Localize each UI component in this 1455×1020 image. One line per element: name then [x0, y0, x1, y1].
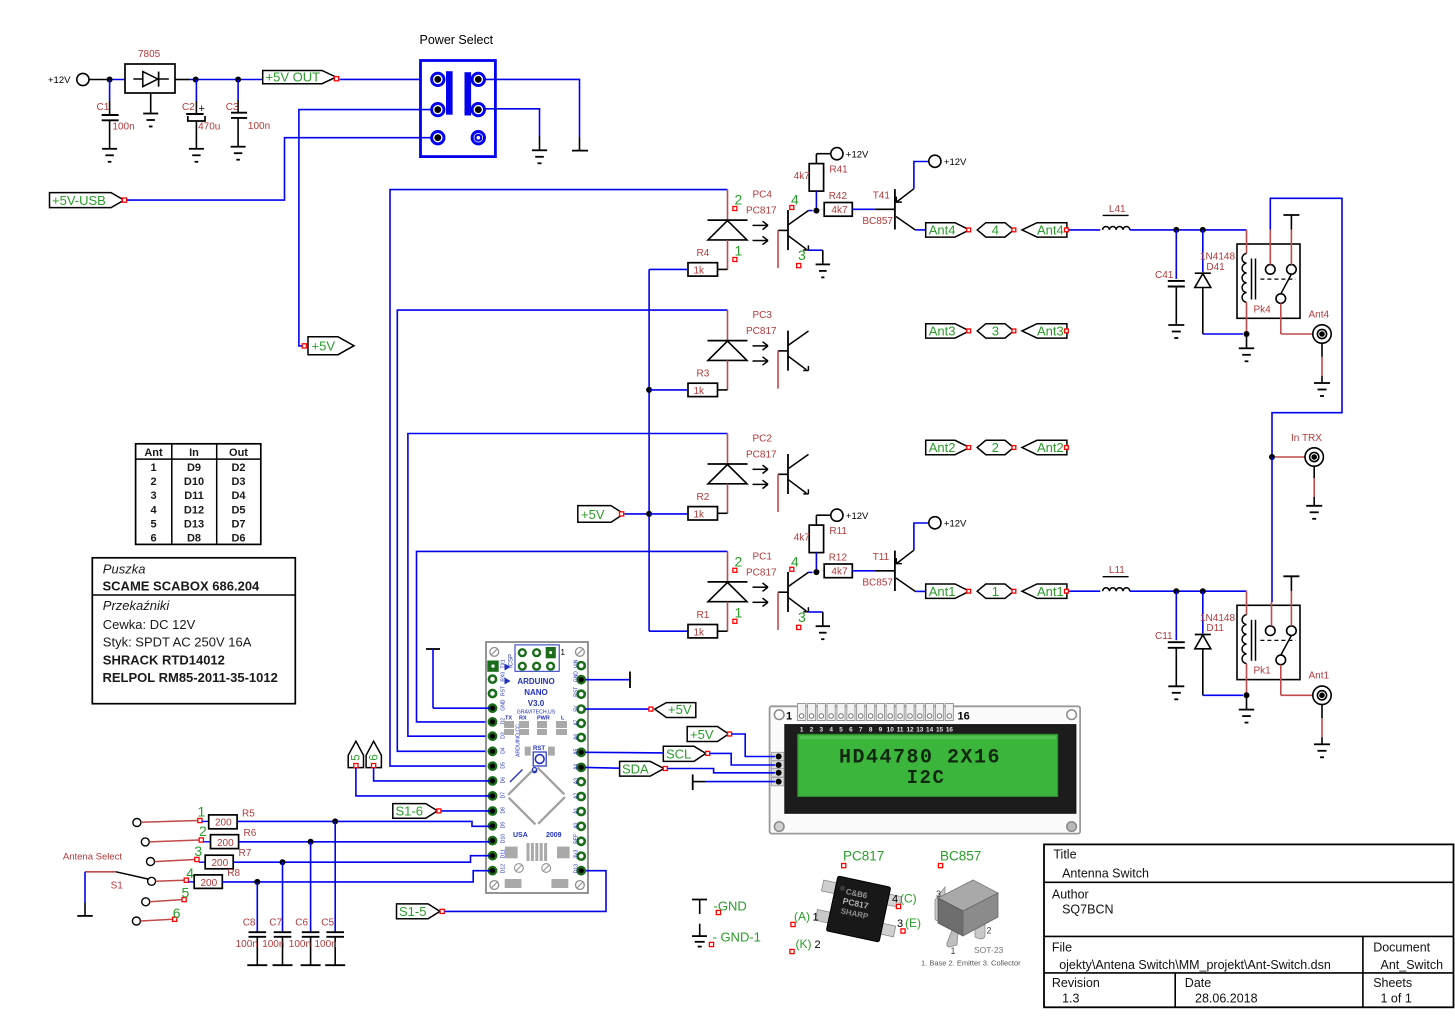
opto PC1 light arrows [753, 583, 769, 607]
svg-text:1 of 1: 1 of 1 [1381, 992, 1412, 1006]
svg-text:5: 5 [839, 727, 843, 734]
svg-text:2: 2 [815, 939, 821, 951]
ground coil Pk1 [1239, 695, 1254, 722]
ground coil Pk4 [1239, 334, 1254, 361]
svg-text:Antena Select: Antena Select [63, 851, 123, 862]
svg-text:Sheets: Sheets [1373, 976, 1412, 990]
svg-text:BC857: BC857 [940, 849, 981, 864]
wire S1-6 to D8 [442, 810, 491, 812]
resistor R7 200 [199, 848, 252, 869]
svg-text:100n: 100n [315, 939, 337, 950]
ground C6 [301, 964, 321, 966]
pin C4 PC817 [892, 892, 917, 909]
wires S1 contacts [141, 821, 200, 922]
ground C41 [1168, 324, 1184, 326]
regulator 7805 [125, 49, 175, 93]
svg-text:3: 3 [194, 843, 202, 859]
flag Ant3 source [926, 324, 970, 338]
wire D41 to coil return [1203, 333, 1243, 335]
svg-text:1: 1 [561, 648, 566, 657]
flag +5V OUT [263, 70, 339, 85]
svg-text:USA: USA [513, 832, 528, 839]
wire 7805 output [175, 79, 263, 81]
wire R6 to D10 [239, 841, 490, 843]
mcu chip Arduino [508, 768, 565, 825]
capacitor C8 100n [236, 882, 267, 965]
wire Pk4 A to TRX bus [1270, 198, 1342, 457]
svg-text:2: 2 [199, 823, 207, 839]
LCD bezel [785, 725, 1076, 814]
wire contact C to Ant4 socket [1281, 303, 1313, 334]
svg-text:D8: D8 [187, 533, 201, 545]
svg-text:(C): (C) [900, 892, 917, 906]
pin labels Arduino [501, 659, 580, 873]
svg-text:15: 15 [936, 727, 944, 734]
svg-text:ojekty\Antena Switch\MM_projek: ojekty\Antena Switch\MM_projekt\Ant-Swit… [1059, 958, 1331, 972]
socket Ant4 [1309, 309, 1332, 343]
svg-text:Antenna Switch: Antenna Switch [1062, 867, 1149, 881]
svg-text:Ant4: Ant4 [1037, 223, 1064, 238]
wire SDA to LCD pin3 [667, 769, 775, 773]
svg-text:R11: R11 [829, 526, 847, 537]
svg-text:BC857: BC857 [862, 577, 893, 588]
opto PC3 light arrows [753, 342, 769, 366]
svg-text:S1-5: S1-5 [399, 904, 426, 919]
ground earth mid [532, 149, 547, 151]
wire R8 to D12 [222, 871, 490, 882]
ground C5 [325, 964, 345, 966]
wire R12 to base [852, 570, 895, 572]
pin labels BC857 [921, 889, 1021, 968]
svg-text:PWR: PWR [537, 716, 550, 722]
wire +5V to LCD pin1 [732, 734, 775, 757]
svg-text:6: 6 [150, 533, 156, 545]
package PC817 photo [814, 873, 904, 944]
svg-text:Title: Title [1053, 848, 1076, 862]
wire T11 collector out [915, 590, 926, 592]
svg-text:3: 3 [798, 609, 806, 625]
svg-text:100n: 100n [236, 939, 258, 950]
svg-text:D7: D7 [501, 792, 507, 799]
flag +5V-USB [50, 193, 127, 209]
svg-text:- GND-1: - GND-1 [713, 930, 761, 945]
flag SDA [620, 761, 668, 776]
wire D-out to PC4 pin2 [727, 190, 729, 221]
resistor R6 200 [203, 828, 256, 849]
svg-text:T11: T11 [873, 552, 890, 563]
ground C2 [189, 148, 204, 150]
svg-text:Ant4: Ant4 [929, 223, 956, 238]
wire A4 to SDA [585, 766, 620, 769]
label PC3 [746, 310, 777, 337]
svg-text:1: 1 [992, 584, 999, 599]
svg-text:1: 1 [735, 604, 743, 620]
svg-text:Ant1: Ant1 [929, 584, 956, 599]
svg-text:Date: Date [1185, 976, 1211, 990]
svg-text:Puszka: Puszka [103, 562, 146, 577]
svg-text:Ant2: Ant2 [929, 440, 956, 455]
pads Arduino left column [489, 676, 496, 875]
ground flag GND left [426, 649, 490, 708]
svg-text:2: 2 [150, 476, 156, 488]
ICSP header [508, 645, 565, 671]
LCD screen [798, 734, 1058, 796]
pin Ant3 a [967, 329, 971, 333]
relay Pk1 contact A [1266, 626, 1276, 636]
ground PC4 emitter [816, 263, 830, 265]
node C2 tap [193, 77, 199, 83]
svg-text:7: 7 [859, 727, 863, 734]
svg-text:PC817: PC817 [746, 206, 777, 217]
resistor R8 200 [188, 868, 240, 889]
pin 3 PC4 [797, 247, 806, 268]
svg-text:Out: Out [229, 447, 248, 459]
svg-text:R41: R41 [829, 165, 848, 176]
svg-text:ARDUINO.CC: ARDUINO.CC [516, 724, 522, 757]
svg-text:1k: 1k [694, 510, 706, 521]
flag Ant4 source [926, 223, 970, 237]
flag Ant2 dest [1022, 440, 1067, 454]
ground C3 [231, 146, 246, 148]
svg-text:3V3: 3V3 [574, 849, 580, 858]
wire Ant4 to L [1069, 229, 1100, 231]
svg-text:200: 200 [215, 817, 232, 828]
svg-text:Przekaźniki: Przekaźniki [103, 598, 171, 613]
node R6 cap [308, 839, 314, 845]
svg-text:D10: D10 [501, 834, 507, 843]
svg-text:12: 12 [906, 727, 914, 734]
pin 1 PC1 [733, 604, 743, 623]
flag Ant1 dest [1022, 584, 1067, 598]
label PC1 [746, 551, 777, 578]
module LCD board [770, 706, 1081, 833]
svg-text:V3.0: V3.0 [528, 699, 545, 708]
no-connect bar Pk1 [1283, 575, 1299, 577]
silkscreen Arduino texts [505, 664, 566, 840]
opto PC2 light arrows [753, 465, 769, 489]
svg-text:4: 4 [829, 727, 833, 734]
svg-text:VIN: VIN [574, 659, 580, 668]
svg-text:+5V-USB: +5V-USB [52, 193, 106, 208]
svg-text:In TRX: In TRX [1291, 433, 1322, 444]
pin Ant2 b [1012, 446, 1016, 450]
opto-coupler PC1 PC817 LED [708, 582, 748, 631]
ground C7 [273, 964, 293, 966]
wire S1-5 to D13 [445, 871, 607, 912]
svg-text:C8: C8 [243, 917, 256, 928]
svg-text:6: 6 [368, 754, 380, 760]
svg-text:200: 200 [201, 878, 218, 889]
svg-text:RST: RST [533, 746, 545, 752]
wire bus to R2 [649, 513, 688, 515]
relay Pk1 mover [1281, 636, 1292, 656]
svg-text:D5: D5 [501, 762, 507, 769]
svg-text:PC4: PC4 [753, 190, 773, 201]
resistor R41 4k7 pullup [794, 154, 848, 211]
wire SCL to LCD pin2 [710, 753, 775, 765]
svg-text:SCL: SCL [666, 747, 691, 762]
relay Pk4 dashed link [1260, 278, 1295, 280]
svg-text:D4: D4 [231, 490, 246, 502]
relay Pk1 contact C [1276, 655, 1286, 665]
wire +5V-USB to Power Select [127, 138, 432, 200]
svg-text:D9: D9 [187, 462, 201, 474]
svg-text:In: In [189, 447, 199, 459]
net number 4 diamond [977, 223, 1014, 238]
relay Pk4 contact B lead [1290, 215, 1292, 265]
svg-text:D10: D10 [184, 476, 204, 488]
svg-text:R2: R2 [697, 492, 710, 503]
svg-text:R5: R5 [242, 809, 255, 820]
svg-text:RST: RST [501, 686, 507, 696]
svg-text:470u: 470u [198, 122, 220, 133]
svg-text:(A): (A) [794, 910, 810, 924]
resistor R11 4k7 pullup [794, 515, 848, 572]
svg-text:+5V: +5V [312, 339, 336, 354]
capacitor C41 [1155, 230, 1185, 325]
net number 3 diamond [977, 324, 1014, 339]
label PC4 [746, 190, 777, 217]
svg-text:100n: 100n [289, 939, 311, 950]
pin K2 PC817 [790, 937, 821, 954]
svg-text:R8: R8 [227, 868, 240, 879]
diode D11 1N4148 [1195, 591, 1236, 695]
svg-text:RST: RST [574, 687, 580, 697]
svg-text:REF: REF [574, 834, 580, 844]
node coil return Pk1 [1244, 692, 1250, 698]
svg-text:SDA: SDA [622, 762, 649, 777]
svg-text:+12V: +12V [846, 511, 869, 522]
node R8 cap [254, 879, 260, 885]
svg-text:Cewka: DC 12V: Cewka: DC 12V [103, 617, 196, 632]
svg-text:A3: A3 [574, 778, 580, 784]
pin 1 PC4 [733, 243, 743, 262]
svg-text:28.06.2018: 28.06.2018 [1195, 992, 1258, 1006]
wire to Power Select pin1 [340, 78, 432, 80]
relay Pk4 coil [1242, 230, 1255, 334]
svg-text:D9: D9 [501, 822, 507, 829]
node bus R2 [646, 511, 652, 517]
svg-text:R6: R6 [244, 828, 257, 839]
label PC817 pkg [842, 849, 885, 868]
svg-text:2: 2 [987, 926, 992, 936]
svg-text:Ant3: Ant3 [929, 324, 956, 339]
pin 3 PC1 [797, 609, 806, 630]
wire L41 to relay coil [1130, 229, 1247, 231]
svg-text:PC1: PC1 [753, 551, 773, 562]
svg-text:D13: D13 [574, 864, 580, 873]
LCD left connector pads [772, 752, 784, 786]
svg-text:D6: D6 [501, 777, 507, 784]
pin numbers S1 [173, 804, 207, 921]
svg-text:A0: A0 [574, 822, 580, 828]
svg-text:D4: D4 [501, 747, 507, 754]
pin Ant4 a [967, 228, 971, 232]
relay Pk4 body [1237, 244, 1300, 318]
svg-text:Ant_Switch: Ant_Switch [1381, 958, 1444, 972]
svg-text:1k: 1k [694, 386, 706, 397]
svg-text:Pk4: Pk4 [1254, 304, 1272, 315]
flag 5 input [348, 741, 363, 768]
pins S1 squares [173, 818, 204, 921]
ground bar right of Arduino [629, 672, 631, 689]
wire Power Select to bar gnd [485, 79, 580, 150]
resistor R2 1k [688, 492, 728, 521]
net number 1 diamond [977, 584, 1014, 599]
relay Pk4 contact C [1276, 294, 1286, 304]
svg-text:SHRACK RTD14012: SHRACK RTD14012 [103, 652, 225, 667]
svg-text:Ant3: Ant3 [1037, 324, 1064, 339]
flag SCL [663, 746, 709, 761]
diode D41 1N4148 [1195, 230, 1236, 334]
svg-text:SOT-23: SOT-23 [974, 945, 1004, 955]
svg-text:D8: D8 [501, 807, 507, 814]
svg-text:3: 3 [992, 324, 999, 339]
wire L11 to relay coil [1130, 590, 1247, 592]
svg-text:3: 3 [798, 247, 806, 263]
socket In TRX [1275, 433, 1323, 466]
resistor R5 200 [202, 809, 255, 829]
wire Ant1 to L [1069, 590, 1100, 592]
svg-text:NANO: NANO [524, 688, 548, 697]
svg-text:D11: D11 [1206, 623, 1224, 634]
svg-text:9: 9 [879, 727, 883, 734]
label PC2 [746, 434, 777, 461]
svg-text:2: 2 [810, 727, 814, 734]
wire T41 emitter to +12V [914, 162, 928, 189]
svg-text:C7: C7 [269, 917, 282, 928]
pin 4 PC4 [790, 192, 799, 210]
svg-text:PC2: PC2 [753, 434, 773, 445]
opto PC1 phototransistor [778, 572, 809, 630]
smd parts Arduino [504, 721, 570, 888]
relay Pk4 contact B [1287, 265, 1297, 275]
ground bar LCD [693, 774, 706, 790]
ground C8 [247, 964, 267, 966]
wire R5 to D9 [237, 821, 490, 826]
svg-text:+12V: +12V [48, 75, 71, 86]
wire 5V pad to +5V flag [585, 708, 651, 710]
svg-text:+12V: +12V [846, 150, 869, 161]
svg-text:D13: D13 [184, 518, 204, 530]
svg-text:L11: L11 [1109, 565, 1125, 576]
pin E3 PC817 [897, 916, 921, 933]
relay Pk1 body [1237, 605, 1300, 679]
svg-text:5: 5 [351, 754, 363, 760]
svg-text:4k7: 4k7 [794, 533, 811, 544]
svg-text:3: 3 [936, 889, 941, 899]
transistor T11 BC857 PNP [862, 550, 915, 591]
svg-text:6: 6 [173, 905, 181, 921]
node C11 tap [1173, 588, 1179, 594]
pin 2 PC4 [733, 192, 743, 211]
wire A5 to SCL [585, 751, 663, 754]
wire D4 to PC3 [397, 310, 727, 751]
svg-text:200: 200 [212, 858, 229, 869]
pad TX1 square [488, 661, 498, 671]
node base junction [813, 569, 819, 575]
net number 2 diamond [977, 440, 1014, 455]
module Arduino Nano board [486, 642, 588, 893]
wire D-out to PC1 pin2 [727, 551, 729, 582]
svg-text:SQ7BCN: SQ7BCN [1062, 903, 1113, 917]
svg-text:S1: S1 [111, 881, 124, 892]
ground C1 [102, 148, 117, 150]
wire flag5 to D7 [356, 768, 490, 796]
wire GND right to bar [585, 679, 630, 681]
svg-text:Document: Document [1373, 941, 1430, 955]
svg-text:R1: R1 [697, 610, 710, 621]
svg-text:-GND: -GND [714, 899, 747, 914]
wire +5V bus vertical [648, 269, 650, 631]
svg-text:+: + [199, 103, 205, 115]
wire gnd to LCD pin4 [706, 781, 775, 783]
capacitor C7 100n [262, 862, 291, 965]
opto-coupler PC2 PC817 LED [708, 464, 748, 513]
ground bar right [572, 150, 588, 152]
resistor R3 1k [688, 369, 728, 398]
node R5 cap [332, 818, 338, 824]
node In TRX [1269, 454, 1275, 460]
flag +5V mid [302, 337, 354, 355]
svg-text:+12V: +12V [944, 519, 967, 530]
svg-text:5V: 5V [574, 705, 580, 712]
flag +5V LCD [687, 727, 731, 742]
svg-text:16: 16 [958, 711, 970, 723]
node coil return Pk4 [1244, 331, 1250, 337]
wire T11 emitter to +12V [914, 523, 928, 550]
wire flag6 to D6 [374, 768, 490, 781]
svg-text:A6: A6 [574, 734, 580, 740]
svg-text:+12V: +12V [944, 157, 967, 168]
pin Ant1 a [967, 589, 971, 593]
package BC857 photo [935, 880, 998, 947]
relay Pk1 dashed link [1260, 639, 1295, 641]
pin Ant3 c [1065, 329, 1069, 333]
title block [1044, 844, 1454, 1007]
node base junction [813, 208, 819, 214]
power +12V for R11 [831, 509, 869, 522]
flag +5V bus [578, 506, 624, 523]
svg-text:Revision: Revision [1052, 976, 1100, 990]
svg-text:+5V: +5V [668, 702, 692, 717]
svg-text:D5: D5 [231, 504, 245, 516]
svg-text:2: 2 [735, 192, 743, 208]
svg-text:BC857: BC857 [862, 216, 893, 227]
capacitor C5 100n [315, 821, 345, 965]
wire PC1 collector to junction [809, 571, 813, 573]
transistor T41 BC857 PNP [862, 189, 915, 230]
info box Puszka [92, 558, 295, 704]
svg-text:PC817: PC817 [746, 326, 777, 337]
resistor R4 1k [688, 248, 728, 277]
pin 2 PC1 [733, 553, 743, 572]
svg-text:R4: R4 [697, 248, 710, 259]
ground Ant1 socket [1314, 705, 1330, 758]
flag 6 input [366, 741, 381, 768]
svg-text:A5: A5 [574, 748, 580, 754]
flag Ant1 source [926, 584, 970, 598]
svg-text:C5: C5 [321, 917, 334, 928]
relay Pk4 mover [1281, 274, 1292, 294]
table Ant In Out [136, 444, 261, 545]
pin Ant2 a [967, 446, 971, 450]
opto PC2 phototransistor [778, 454, 809, 512]
solder jumpers Arduino [515, 864, 551, 873]
svg-text:Ant4: Ant4 [1309, 309, 1330, 320]
wire Power Select to +5V flag [299, 110, 432, 346]
svg-text:SCAME SCABOX 686.204: SCAME SCABOX 686.204 [103, 579, 261, 594]
